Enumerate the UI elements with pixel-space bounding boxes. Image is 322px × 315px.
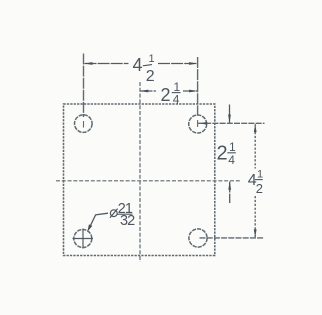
arrow left of 2-1/4 top: [140, 90, 149, 93]
hole bottom-right: [189, 229, 207, 247]
svg-text:1: 1: [257, 169, 263, 181]
dim line 2-1/4 right lower segment: [229, 182, 231, 204]
dim line 2-1/4 top right segment: [183, 90, 197, 92]
arrow up 4-1/2 right: [254, 124, 257, 133]
svg-text:1: 1: [149, 53, 155, 65]
plate outline: [64, 104, 215, 256]
dim line 4-1/2 top left segment: [85, 63, 129, 65]
vertical center line: [139, 82, 141, 262]
svg-text:4: 4: [133, 55, 143, 75]
dim line 4-1/2 right lower segment: [254, 196, 256, 237]
center cross in bottom-left hole: [73, 229, 94, 249]
dim line 2-1/4 right upper segment: [229, 105, 231, 123]
dim line 4-1/2 right upper segment: [254, 124, 256, 168]
arrow left of 4-1/2 top: [84, 62, 93, 65]
label fraction 21/32: [118, 201, 135, 229]
svg-text:4: 4: [228, 153, 235, 167]
arrow up 2-1/4 right lower: [228, 181, 231, 190]
svg-text:2: 2: [256, 181, 263, 196]
svg-text:2: 2: [217, 143, 228, 165]
svg-text:4: 4: [173, 92, 180, 106]
arrow right of 2-1/4 top: [189, 90, 198, 93]
dim text 2-1/4 right: [217, 140, 237, 167]
hole top-right: [189, 115, 207, 133]
hole bottom-left: [74, 230, 92, 248]
arrow down 2-1/4 right upper: [228, 115, 231, 124]
extension line right top: [198, 122, 265, 124]
dim text 2-1/4 top: [161, 80, 181, 106]
extension line top-right hole: [197, 57, 199, 116]
arrow right of 4-1/2 top: [189, 62, 198, 65]
leader line to hole label: [89, 213, 108, 229]
svg-text:2: 2: [161, 85, 171, 105]
dim line 4-1/2 top right segment: [158, 63, 197, 65]
arrow down 4-1/2 right: [254, 229, 257, 238]
hole top-left: [75, 115, 93, 133]
svg-text:2: 2: [146, 68, 155, 85]
tick in top-right hole: [197, 120, 199, 127]
extension line top-left hole: [83, 54, 85, 118]
leader arrowhead: [87, 224, 92, 232]
dim text 4-1/2 top: [133, 53, 155, 85]
label diameter symbol: [110, 209, 118, 218]
dim line 2-1/4 top left segment: [141, 90, 157, 92]
dim text 4-1/2 right: [248, 169, 263, 196]
extension line right bottom: [200, 237, 264, 239]
horizontal center line: [56, 180, 241, 182]
arrow on right extension at hole center: [201, 122, 207, 125]
tick in top-left hole: [83, 121, 85, 128]
svg-text:32: 32: [120, 213, 135, 229]
